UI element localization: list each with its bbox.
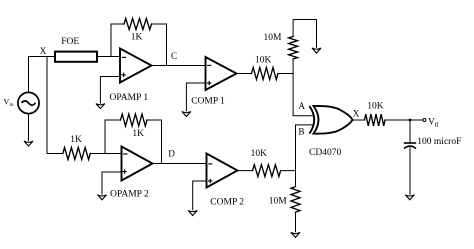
svg-text:X: X (353, 108, 360, 118)
svg-text:X: X (40, 46, 47, 56)
svg-text:1K: 1K (70, 135, 82, 145)
svg-text:10K: 10K (367, 101, 384, 111)
svg-text:10M: 10M (269, 197, 288, 207)
svg-text:COMP 2: COMP 2 (210, 198, 244, 208)
svg-text:10K: 10K (251, 149, 268, 159)
svg-text:COMP 1: COMP 1 (191, 96, 225, 106)
svg-text:1K: 1K (131, 33, 143, 43)
svg-text:10K: 10K (255, 55, 272, 65)
svg-text:B: B (298, 126, 304, 136)
svg-text:100 microF: 100 microF (417, 137, 461, 147)
svg-text:D: D (168, 149, 175, 159)
svg-text:A: A (298, 101, 305, 111)
svg-text:1K: 1K (132, 129, 144, 139)
svg-text:OPAMP 1: OPAMP 1 (110, 93, 149, 103)
svg-text:C: C (171, 51, 177, 61)
svg-text:10M: 10M (264, 33, 283, 43)
svg-text:OPAMP 2: OPAMP 2 (110, 190, 149, 200)
svg-text:CD4070: CD4070 (309, 148, 341, 158)
svg-text:FOE: FOE (61, 37, 79, 47)
